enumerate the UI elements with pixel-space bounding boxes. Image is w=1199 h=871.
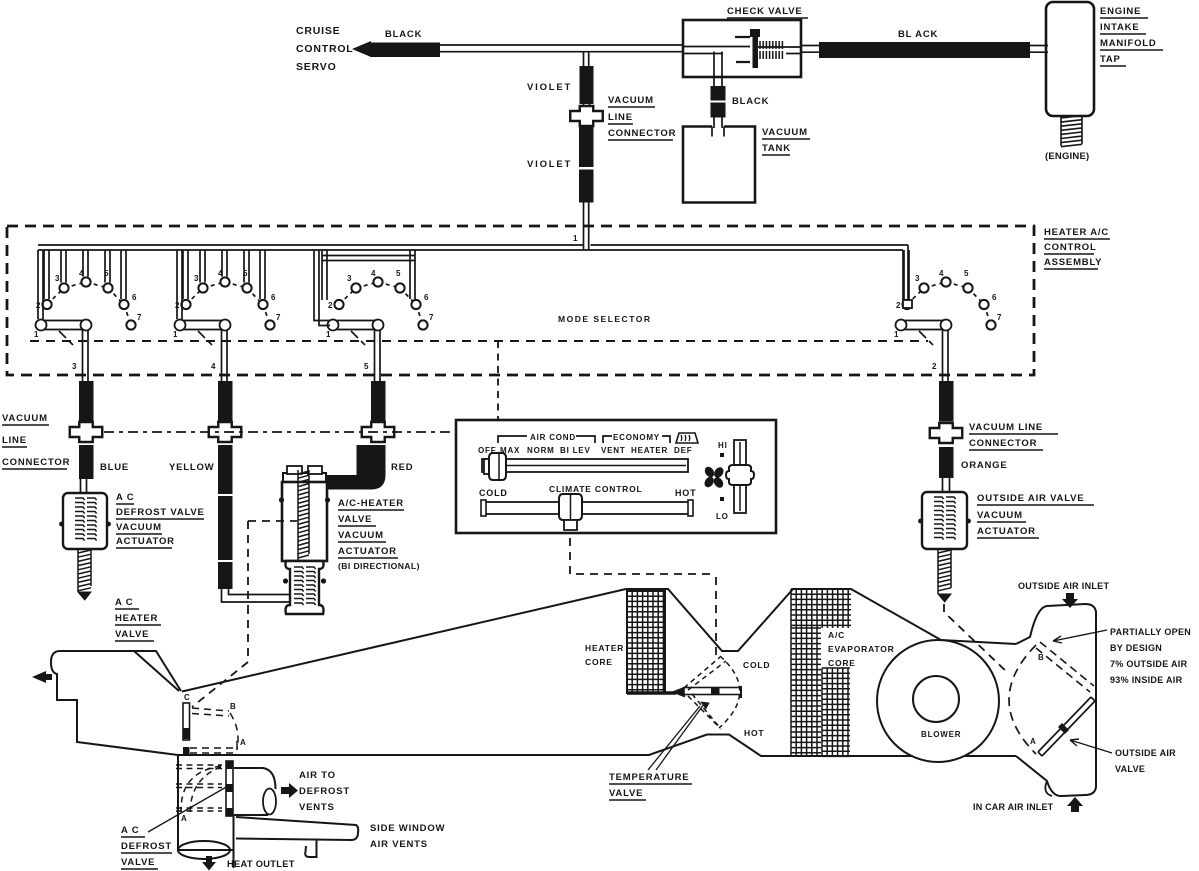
- side window air vents duct: [236, 817, 358, 857]
- svg-text:VIOLET: VIOLET: [527, 159, 572, 170]
- svg-text:TANK: TANK: [762, 143, 791, 154]
- air-to-defrost duct: [234, 768, 276, 815]
- svg-text:HOT: HOT: [744, 728, 764, 738]
- label VACUUM LINE CONNECTOR (violet): [608, 95, 676, 140]
- labels OFF MAX NORM BI LEV VENT HEATER DEF: [478, 446, 692, 455]
- svg-text:A: A: [181, 814, 188, 823]
- label HEATER A/C CONTROL ASSEMBLY: [1044, 227, 1110, 269]
- svg-text:IN CAR AIR INLET: IN CAR AIR INLET: [973, 802, 1054, 812]
- svg-text:HEATER: HEATER: [115, 613, 158, 624]
- svg-text:7: 7: [137, 313, 142, 322]
- svg-text:A/C-HEATER: A/C-HEATER: [338, 498, 404, 509]
- svg-text:3: 3: [194, 274, 199, 283]
- outside air valve vacuum actuator body: [922, 492, 967, 549]
- svg-text:6: 6: [992, 293, 997, 302]
- check valve internals: [735, 29, 782, 68]
- svg-text:7: 7: [997, 313, 1002, 322]
- svg-text:CORE: CORE: [585, 657, 613, 667]
- blower slider track: [734, 440, 746, 513]
- svg-text:NORM: NORM: [527, 446, 555, 455]
- svg-text:A: A: [240, 738, 247, 747]
- svg-text:2: 2: [896, 301, 901, 310]
- svg-text:OUTSIDE AIR INLET: OUTSIDE AIR INLET: [1018, 581, 1109, 591]
- svg-text:DEF: DEF: [674, 446, 692, 455]
- svg-text:COLD: COLD: [743, 660, 770, 670]
- label PARTIALLY OPEN BY DESIGN 7% OUTSIDE AIR 93% INSIDE AIR: [1110, 627, 1191, 685]
- housing center outline (heater core bay): [626, 589, 1016, 651]
- defrost flap dashed positions: [176, 765, 222, 811]
- svg-text:VACUUM: VACUUM: [762, 127, 808, 138]
- label TEMPERATURE VALVE: [609, 772, 692, 800]
- check valve label: [727, 6, 808, 18]
- switch 4 output wire (to port 2): [943, 330, 949, 382]
- wire T-junction down from main line: [584, 51, 589, 66]
- switch 3 mechanical link dash: [351, 331, 365, 345]
- defrost actuator spring: [75, 498, 85, 541]
- svg-text:6: 6: [271, 293, 276, 302]
- svg-text:ACTUATOR: ACTUATOR: [977, 526, 1036, 537]
- hose BLACK (to tank) seg2: [711, 103, 726, 118]
- fan icon: [703, 465, 726, 489]
- switch 1 mechanical link dash: [59, 331, 73, 345]
- svg-text:VALVE: VALVE: [338, 514, 372, 525]
- svg-text:ENGINE: ENGINE: [1100, 6, 1141, 17]
- leader line to defrost flap: [148, 786, 228, 832]
- switch 4 wires from bus: [903, 250, 912, 308]
- svg-text:MANIFOLD: MANIFOLD: [1100, 38, 1157, 49]
- svg-text:VACUUM: VACUUM: [338, 530, 384, 541]
- svg-text:INTAKE: INTAKE: [1100, 22, 1139, 33]
- temperature slider knob (center): [559, 494, 582, 530]
- svg-text:HOT: HOT: [675, 488, 696, 498]
- bidirectional actuator lower spring: [294, 567, 304, 605]
- svg-text:ACTUATOR: ACTUATOR: [116, 536, 175, 547]
- svg-text:SERVO: SERVO: [296, 61, 337, 73]
- label A C HEATER VALVE: [115, 597, 161, 641]
- svg-text:A C: A C: [121, 825, 139, 836]
- wire hose to connector: [584, 104, 590, 106]
- svg-text:EVAPORATOR: EVAPORATOR: [828, 644, 895, 654]
- svg-text:DEFROST: DEFROST: [121, 841, 172, 852]
- check valve box: [683, 20, 801, 77]
- svg-text:YELLOW: YELLOW: [169, 462, 214, 473]
- hose YELLOW lower seg3: [218, 562, 233, 589]
- vacuum line connector (yellow): [209, 422, 242, 442]
- mode selector switch 1: port arc: [42, 277, 135, 329]
- wire violet hose down to control assembly: [584, 202, 589, 251]
- wire check valve to black hose right: [801, 46, 820, 53]
- svg-text:VALVE: VALVE: [121, 857, 155, 868]
- vacuum line connector (red): [362, 422, 395, 442]
- label AIR TO DEFROST VENTS: [299, 770, 350, 813]
- svg-text:6: 6: [132, 293, 137, 302]
- svg-text:CORE: CORE: [828, 658, 856, 668]
- svg-text:VENT: VENT: [601, 446, 626, 455]
- wire main vacuum bus: [38, 245, 908, 250]
- svg-text:HEAT OUTLET: HEAT OUTLET: [227, 859, 295, 869]
- label OUTSIDE AIR VALVE VACUUM ACTUATOR: [977, 493, 1094, 538]
- switch 3 port number labels: [326, 269, 434, 339]
- svg-text:1: 1: [326, 330, 331, 339]
- hose BLACK (engine): [819, 42, 1030, 58]
- dashed link panel to temperature valve: [570, 538, 716, 656]
- svg-text:A C: A C: [115, 597, 133, 608]
- svg-text:VACUUM: VACUUM: [608, 95, 654, 106]
- leader lines temperature valve: [648, 704, 704, 770]
- switch 1 selector bar (port 1 to pivot): [41, 321, 87, 330]
- label SIDE WINDOW AIR VENTS: [370, 823, 445, 850]
- svg-text:OUTSIDE AIR VALVE: OUTSIDE AIR VALVE: [977, 493, 1084, 504]
- svg-text:7: 7: [429, 313, 434, 322]
- vacuum line connector (blue): [70, 422, 103, 442]
- svg-text:2: 2: [328, 301, 333, 310]
- svg-text:HI: HI: [718, 441, 728, 450]
- switch 2 wires from bus: [177, 250, 265, 319]
- svg-text:VACUUM LINE: VACUUM LINE: [969, 422, 1043, 433]
- svg-text:5: 5: [396, 269, 401, 278]
- svg-text:RED: RED: [391, 462, 413, 473]
- svg-text:93% INSIDE AIR: 93% INSIDE AIR: [1110, 675, 1183, 685]
- heater A/C control assembly dashed box: [7, 226, 1034, 375]
- svg-text:TAP: TAP: [1100, 54, 1121, 65]
- switch 1 output wire (to port 3): [83, 330, 89, 382]
- svg-text:CONTROL: CONTROL: [296, 43, 354, 55]
- svg-text:BLOWER: BLOWER: [921, 730, 961, 739]
- wire check valve to vacuum tank branch: [714, 52, 722, 87]
- outside air actuator spring: [934, 497, 944, 540]
- svg-text:5: 5: [364, 362, 369, 371]
- label VACUUM TANK: [762, 127, 810, 155]
- dashed link outside air actuator to flap: [944, 604, 1009, 674]
- svg-text:1: 1: [894, 330, 899, 339]
- dash-dot connector line linking blue/yellow/red connectors: [104, 431, 456, 433]
- svg-text:7% OUTSIDE AIR: 7% OUTSIDE AIR: [1110, 659, 1188, 669]
- switch 3 output wire (to port 5): [375, 330, 381, 382]
- hose VIOLET lower segment 2: [579, 170, 594, 203]
- svg-text:C: C: [184, 693, 191, 702]
- vacuum line connector (violet): [570, 106, 603, 126]
- switch 3 selector bar (port 1 to pivot): [333, 321, 379, 330]
- hose BLACK (cruise servo): [370, 43, 440, 58]
- svg-text:VENTS: VENTS: [299, 802, 335, 813]
- svg-text:HEATER: HEATER: [585, 643, 624, 653]
- svg-text:BL ACK: BL ACK: [898, 29, 938, 40]
- svg-text:VALVE: VALVE: [609, 788, 643, 799]
- wire cruise servo to check valve: [440, 45, 683, 52]
- defrost actuator shaft: [78, 549, 91, 600]
- svg-text:HEATER: HEATER: [631, 446, 668, 455]
- hose BLACK (to tank) seg1: [711, 86, 726, 101]
- temperature valve bar: [671, 686, 741, 698]
- svg-text:4: 4: [939, 269, 944, 278]
- A/C evaporator core (hatched): [791, 589, 851, 757]
- mechanical linkage dashed line (mode selector shaft): [30, 340, 928, 342]
- heat outlet oval: [178, 841, 230, 859]
- switch 1 wires from bus: [38, 250, 126, 319]
- left duct arrow: [32, 671, 52, 683]
- svg-text:7: 7: [276, 313, 281, 322]
- svg-text:VALVE: VALVE: [115, 629, 149, 640]
- A/C heater valve dashed positions B and A: [190, 708, 236, 753]
- arrow to cruise control servo: [352, 41, 371, 57]
- leader partially open: [1053, 630, 1107, 643]
- svg-text:TEMPERATURE: TEMPERATURE: [609, 772, 689, 783]
- defrost outlet duct: [178, 755, 234, 868]
- hose RED lower + elbow: [326, 445, 386, 490]
- dashed link bidirectional actuator region: [192, 521, 297, 707]
- arrow outside air inlet: [1062, 593, 1078, 608]
- switch 4 selector bar (port 1 to pivot): [901, 321, 947, 330]
- A/C defrost valve vacuum actuator body: [63, 493, 107, 549]
- wire yellow hose to bidirectional actuator: [222, 589, 290, 602]
- fan dots: [720, 453, 724, 457]
- svg-text:VACUUM: VACUUM: [116, 522, 162, 533]
- svg-text:VALVE: VALVE: [1115, 764, 1145, 774]
- svg-text:3: 3: [347, 274, 352, 283]
- svg-text:A/C: A/C: [828, 630, 845, 640]
- svg-text:SIDE WINDOW: SIDE WINDOW: [370, 823, 445, 834]
- engine intake manifold tap body: [1046, 2, 1094, 116]
- vacuum line connector (orange): [930, 423, 963, 443]
- hose RED upper: [371, 381, 386, 422]
- wire blue hose to actuator: [81, 479, 87, 493]
- outside air valve flap A (solid): [1038, 697, 1095, 756]
- svg-text:2: 2: [932, 362, 937, 371]
- outside air actuator shaft: [938, 549, 951, 602]
- ECONOMY bracket: [603, 436, 670, 443]
- climate control panel box: [456, 420, 776, 533]
- right housing outline (air inlet): [1016, 604, 1096, 796]
- wire hose to tank: [714, 118, 722, 129]
- mode selector to climate panel dashed link: [497, 341, 499, 424]
- svg-text:ORANGE: ORANGE: [961, 460, 1008, 471]
- bidirectional actuator shaft column: [298, 470, 309, 560]
- svg-text:HEATER A/C: HEATER A/C: [1044, 227, 1109, 238]
- svg-text:B: B: [230, 702, 237, 711]
- svg-text:LO: LO: [716, 512, 729, 521]
- svg-text:ACTUATOR: ACTUATOR: [338, 546, 397, 557]
- svg-text:VACUUM: VACUUM: [977, 510, 1023, 521]
- svg-text:DEFROST VALVE: DEFROST VALVE: [116, 507, 205, 518]
- hose ORANGE lower: [939, 447, 954, 478]
- svg-text:COLD: COLD: [479, 488, 508, 498]
- temperature slider track: [481, 500, 693, 516]
- blower slider knob: [726, 465, 754, 485]
- svg-text:3: 3: [55, 274, 60, 283]
- svg-text:AIR TO: AIR TO: [299, 770, 336, 781]
- mode slider knob (at OFF): [484, 453, 506, 480]
- svg-text:OUTSIDE AIR: OUTSIDE AIR: [1115, 748, 1176, 758]
- label HEAT OUTLET with arrow: [202, 856, 216, 871]
- arrow to defrost vents: [281, 783, 298, 798]
- outside air valve swing arc (dashed): [1009, 645, 1036, 754]
- vacuum tank: [683, 127, 755, 203]
- svg-text:ECONOMY: ECONOMY: [613, 433, 660, 442]
- svg-text:3: 3: [72, 362, 77, 371]
- bidirectional actuator side nubs: [279, 497, 330, 583]
- svg-text:B: B: [1038, 653, 1045, 662]
- wire hose to manifold tap: [1030, 46, 1048, 53]
- svg-text:(ENGINE): (ENGINE): [1045, 151, 1089, 162]
- switch 2 mechanical link dash: [198, 331, 212, 345]
- mode selector switch 2: port arc: [181, 277, 274, 329]
- left duct outline: [51, 651, 181, 755]
- wire inside check valve: [683, 47, 801, 54]
- leader outside air valve: [1070, 739, 1112, 753]
- label A/C DEFROST VALVE VACUUM ACTUATOR: [116, 492, 205, 548]
- temperature valve dashed positions: [684, 657, 726, 729]
- svg-text:CONNECTOR: CONNECTOR: [608, 128, 676, 139]
- svg-text:A: A: [1030, 737, 1037, 746]
- svg-text:BLUE: BLUE: [100, 462, 129, 473]
- svg-text:3: 3: [915, 274, 920, 283]
- A/C-heater valve vacuum actuator (bidirectional): top cap: [283, 466, 326, 482]
- svg-text:1: 1: [573, 234, 578, 243]
- hose YELLOW lower seg2: [218, 496, 233, 560]
- wire orange hose to actuator: [943, 478, 950, 492]
- in-car air inlet notch: [1045, 781, 1052, 796]
- switch 2 selector bar (port 1 to pivot): [180, 321, 226, 330]
- svg-text:CRUISE: CRUISE: [296, 25, 340, 37]
- mode slider track: [482, 459, 688, 472]
- manifold tap threads: [1061, 116, 1082, 147]
- label A/C EVAPORATOR CORE: [828, 630, 895, 668]
- svg-text:MODE SELECTOR: MODE SELECTOR: [558, 314, 652, 324]
- AIR COND bracket: [498, 436, 595, 443]
- switch 1 port number labels: [34, 269, 142, 339]
- svg-text:CONTROL: CONTROL: [1044, 242, 1097, 253]
- svg-text:LINE: LINE: [608, 112, 633, 123]
- wire bus drop to switch 4: [903, 245, 908, 300]
- svg-text:4: 4: [371, 269, 376, 278]
- svg-text:CLIMATE CONTROL: CLIMATE CONTROL: [549, 484, 643, 494]
- cruise control servo label: [296, 25, 354, 73]
- label HEATER CORE: [585, 643, 624, 667]
- svg-text:BLACK: BLACK: [385, 29, 422, 40]
- heater core (hatched): [627, 591, 665, 693]
- svg-text:4: 4: [211, 362, 216, 371]
- svg-text:BY DESIGN: BY DESIGN: [1110, 643, 1162, 653]
- svg-text:CONNECTOR: CONNECTOR: [969, 438, 1037, 449]
- housing top long diagonal: [182, 589, 626, 692]
- label VACUUM LINE CONNECTOR (orange): [969, 422, 1058, 450]
- svg-text:(BI DIRECTIONAL): (BI DIRECTIONAL): [338, 561, 420, 571]
- svg-text:VACUUM: VACUUM: [2, 413, 48, 424]
- svg-text:CHECK VALVE: CHECK VALVE: [727, 6, 802, 17]
- label A C DEFROST VALVE: [121, 825, 172, 869]
- svg-text:1: 1: [173, 330, 178, 339]
- housing floor line: [178, 735, 1016, 757]
- svg-text:5: 5: [964, 269, 969, 278]
- switch 4 mechanical link dash: [919, 331, 933, 345]
- svg-text:BI LEV: BI LEV: [560, 446, 591, 455]
- switch 3 wires from bus: [314, 250, 415, 326]
- svg-text:PARTIALLY OPEN: PARTIALLY OPEN: [1110, 627, 1191, 637]
- svg-text:LINE: LINE: [2, 435, 27, 446]
- hose YELLOW upper: [218, 381, 233, 422]
- svg-text:1: 1: [34, 330, 39, 339]
- switch 2 port number labels: [173, 269, 281, 339]
- switch 2 output wire (to port 4): [222, 330, 228, 382]
- label A/C-HEATER VALVE VACUUM ACTUATOR (BI DIRECTIONAL): [338, 498, 420, 571]
- defrost icon: [676, 433, 698, 443]
- label OUTSIDE AIR VALVE (right): [1115, 748, 1176, 774]
- hose VIOLET lower segment 1: [579, 127, 594, 167]
- bidirectional actuator main body: [282, 482, 327, 561]
- switch 4 port number labels: [894, 269, 1002, 339]
- svg-text:CONNECTOR: CONNECTOR: [2, 457, 70, 468]
- hose BLUE upper: [79, 381, 94, 422]
- bidirectional actuator lower housing: [286, 561, 324, 614]
- svg-text:VIOLET: VIOLET: [527, 82, 572, 93]
- svg-text:DEFROST: DEFROST: [299, 786, 350, 797]
- blower: [877, 640, 999, 762]
- label ENGINE INTAKE MANIFOLD TAP: [1100, 6, 1163, 66]
- hose ORANGE upper: [939, 381, 954, 422]
- svg-text:ASSEMBLY: ASSEMBLY: [1044, 257, 1102, 268]
- outside air valve flap B (dashed, partially open): [1036, 642, 1094, 692]
- arrow in-car air inlet: [1067, 797, 1083, 812]
- hose BLUE lower: [79, 445, 94, 479]
- hose VIOLET upper: [580, 66, 594, 104]
- mode selector switch 3: port arc: [334, 277, 427, 329]
- svg-text:6: 6: [424, 293, 429, 302]
- hose YELLOW lower seg1: [218, 445, 233, 494]
- mode selector switch 4: port arc: [902, 277, 995, 329]
- svg-text:AIR VENTS: AIR VENTS: [370, 839, 428, 850]
- heater core bottom edge extension: [627, 691, 676, 695]
- defrost valve flap: [226, 761, 233, 816]
- svg-text:AIR COND: AIR COND: [530, 433, 576, 442]
- label VACUUM LINE CONNECTOR (left): [2, 413, 70, 469]
- A/C heater valve flap C: [183, 703, 190, 755]
- svg-text:A C: A C: [116, 492, 134, 503]
- svg-text:BLACK: BLACK: [732, 96, 769, 107]
